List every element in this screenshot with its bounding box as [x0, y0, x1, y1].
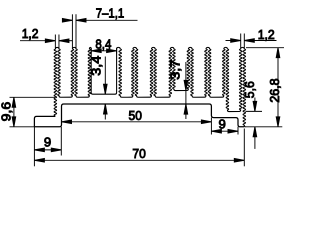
svg-text:8,4: 8,4 — [95, 37, 111, 52]
svg-text:50: 50 — [129, 108, 142, 123]
dimension 9,6 extension lines — [10, 97, 56, 127]
dimension 26,8 extension line top — [246, 47, 284, 49]
dimension 1,2 left, extension lines of fin F1 — [55, 35, 59, 49]
dimension 9 right line arrows and text — [211, 116, 238, 133]
svg-text:3,7: 3,7 — [167, 60, 182, 80]
dimension 9 left extension lines — [34, 127, 61, 167]
svg-text:5,6: 5,6 — [242, 81, 257, 98]
dimension 3,4 slot depth arrows and text — [89, 56, 108, 120]
dimension 5,6 extension lines — [246, 111, 283, 126]
svg-text:26,8: 26,8 — [267, 78, 282, 102]
dimension 70 line arrows and text — [34, 146, 244, 162]
heatsink profile: base, legs and cavity outline — [34, 104, 244, 127]
dimension 3,7 web thickness arrows and text — [167, 60, 187, 119]
dimension 9,6 line arrows and text — [0, 97, 16, 127]
svg-text:9: 9 — [219, 116, 226, 131]
dimension 1,2 right, extension lines of fin F11 — [241, 34, 245, 49]
svg-text:1,2: 1,2 — [258, 27, 275, 42]
dimension 1,2 right arrows and text — [226, 27, 277, 42]
dimension 70 extension line right — [243, 129, 245, 167]
dimension 26,8 line arrows and text — [267, 48, 282, 127]
dimension 50 line arrows and text — [62, 108, 212, 124]
dimension 7-1,1 arrows and text — [62, 5, 137, 22]
svg-text:3,4: 3,4 — [89, 56, 104, 76]
dimension 8,4 slot width, extension lines — [91, 48, 116, 54]
dimension 5,6 arrows and text — [242, 81, 257, 149]
dimension 1,2 left arrows and text — [20, 26, 72, 43]
dimension 8,4 line arrows and text — [91, 37, 116, 53]
dimension 7-1,1 fin thickness, extension lines of fin F2 — [72, 14, 76, 48]
dimension 50 extension line right — [210, 118, 212, 124]
svg-text:9: 9 — [44, 134, 51, 149]
svg-text:7–1,1: 7–1,1 — [96, 5, 125, 20]
heatsink profile: serrated fins F1-F11 and channel floors — [54, 47, 246, 126]
svg-text:1,2: 1,2 — [22, 26, 39, 41]
svg-text:70: 70 — [132, 146, 145, 161]
dimension 9 left line arrows and text — [34, 134, 61, 151]
dimension 9 right extension lines — [211, 124, 238, 135]
svg-text:9,6: 9,6 — [0, 102, 13, 122]
